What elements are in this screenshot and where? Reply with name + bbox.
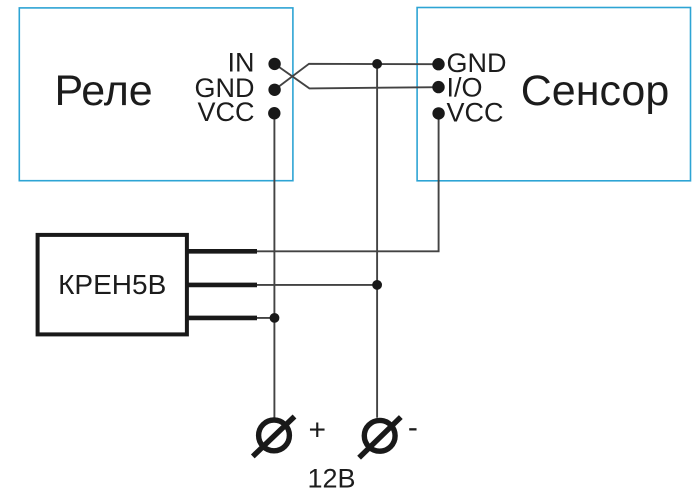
regulator pin 1 lead <box>186 249 257 254</box>
terminal + slash <box>253 417 295 457</box>
wire: regulator middle pin to GND net <box>256 284 377 286</box>
junction GND net top <box>372 59 382 69</box>
wire: regulator bottom pin to +12V net <box>256 317 275 319</box>
terminal - (12V negative) circle <box>364 420 395 451</box>
regulator U1 КРЕН5В box <box>38 235 187 335</box>
regulator pin 3 lead <box>186 316 257 321</box>
svg-text:+: + <box>309 414 327 447</box>
wire: relay IN to sensor I/O (diagonal then horizontal) <box>275 64 439 89</box>
wire: relay VCC down to + terminal <box>273 113 275 417</box>
regulator pin 2 lead <box>186 283 257 288</box>
wire: relay GND to sensor GND (diagonal then horizontal) <box>275 64 439 90</box>
pin dot relay IN <box>268 58 280 70</box>
junction regulator pin3 / +12V net <box>270 313 280 323</box>
pin dot sensor GND <box>432 58 444 70</box>
pin dot relay VCC <box>268 107 280 119</box>
svg-text:VCC: VCC <box>447 97 504 127</box>
pin dot sensor VCC <box>432 107 444 119</box>
sensor block box (Сенсор) <box>417 8 690 181</box>
svg-text:12В: 12В <box>307 464 355 494</box>
svg-text:-: - <box>408 411 418 444</box>
pin dot relay GND <box>268 84 280 96</box>
svg-text:VCC: VCC <box>197 97 254 127</box>
svg-text:КРЕН5В: КРЕН5В <box>58 269 166 300</box>
wire: GND net vertical down to - terminal <box>376 64 378 418</box>
svg-text:Реле: Реле <box>54 67 152 115</box>
terminal - slash <box>359 417 401 458</box>
svg-text:Сенсор: Сенсор <box>521 67 670 115</box>
relay block box (Реле) <box>19 8 293 181</box>
wire: sensor VCC down then left to regulator top pin <box>256 113 439 251</box>
junction regulator pin2 / GND net <box>372 280 382 290</box>
pin dot sensor I/O <box>432 81 444 93</box>
terminal + (12V positive) circle <box>259 420 290 451</box>
